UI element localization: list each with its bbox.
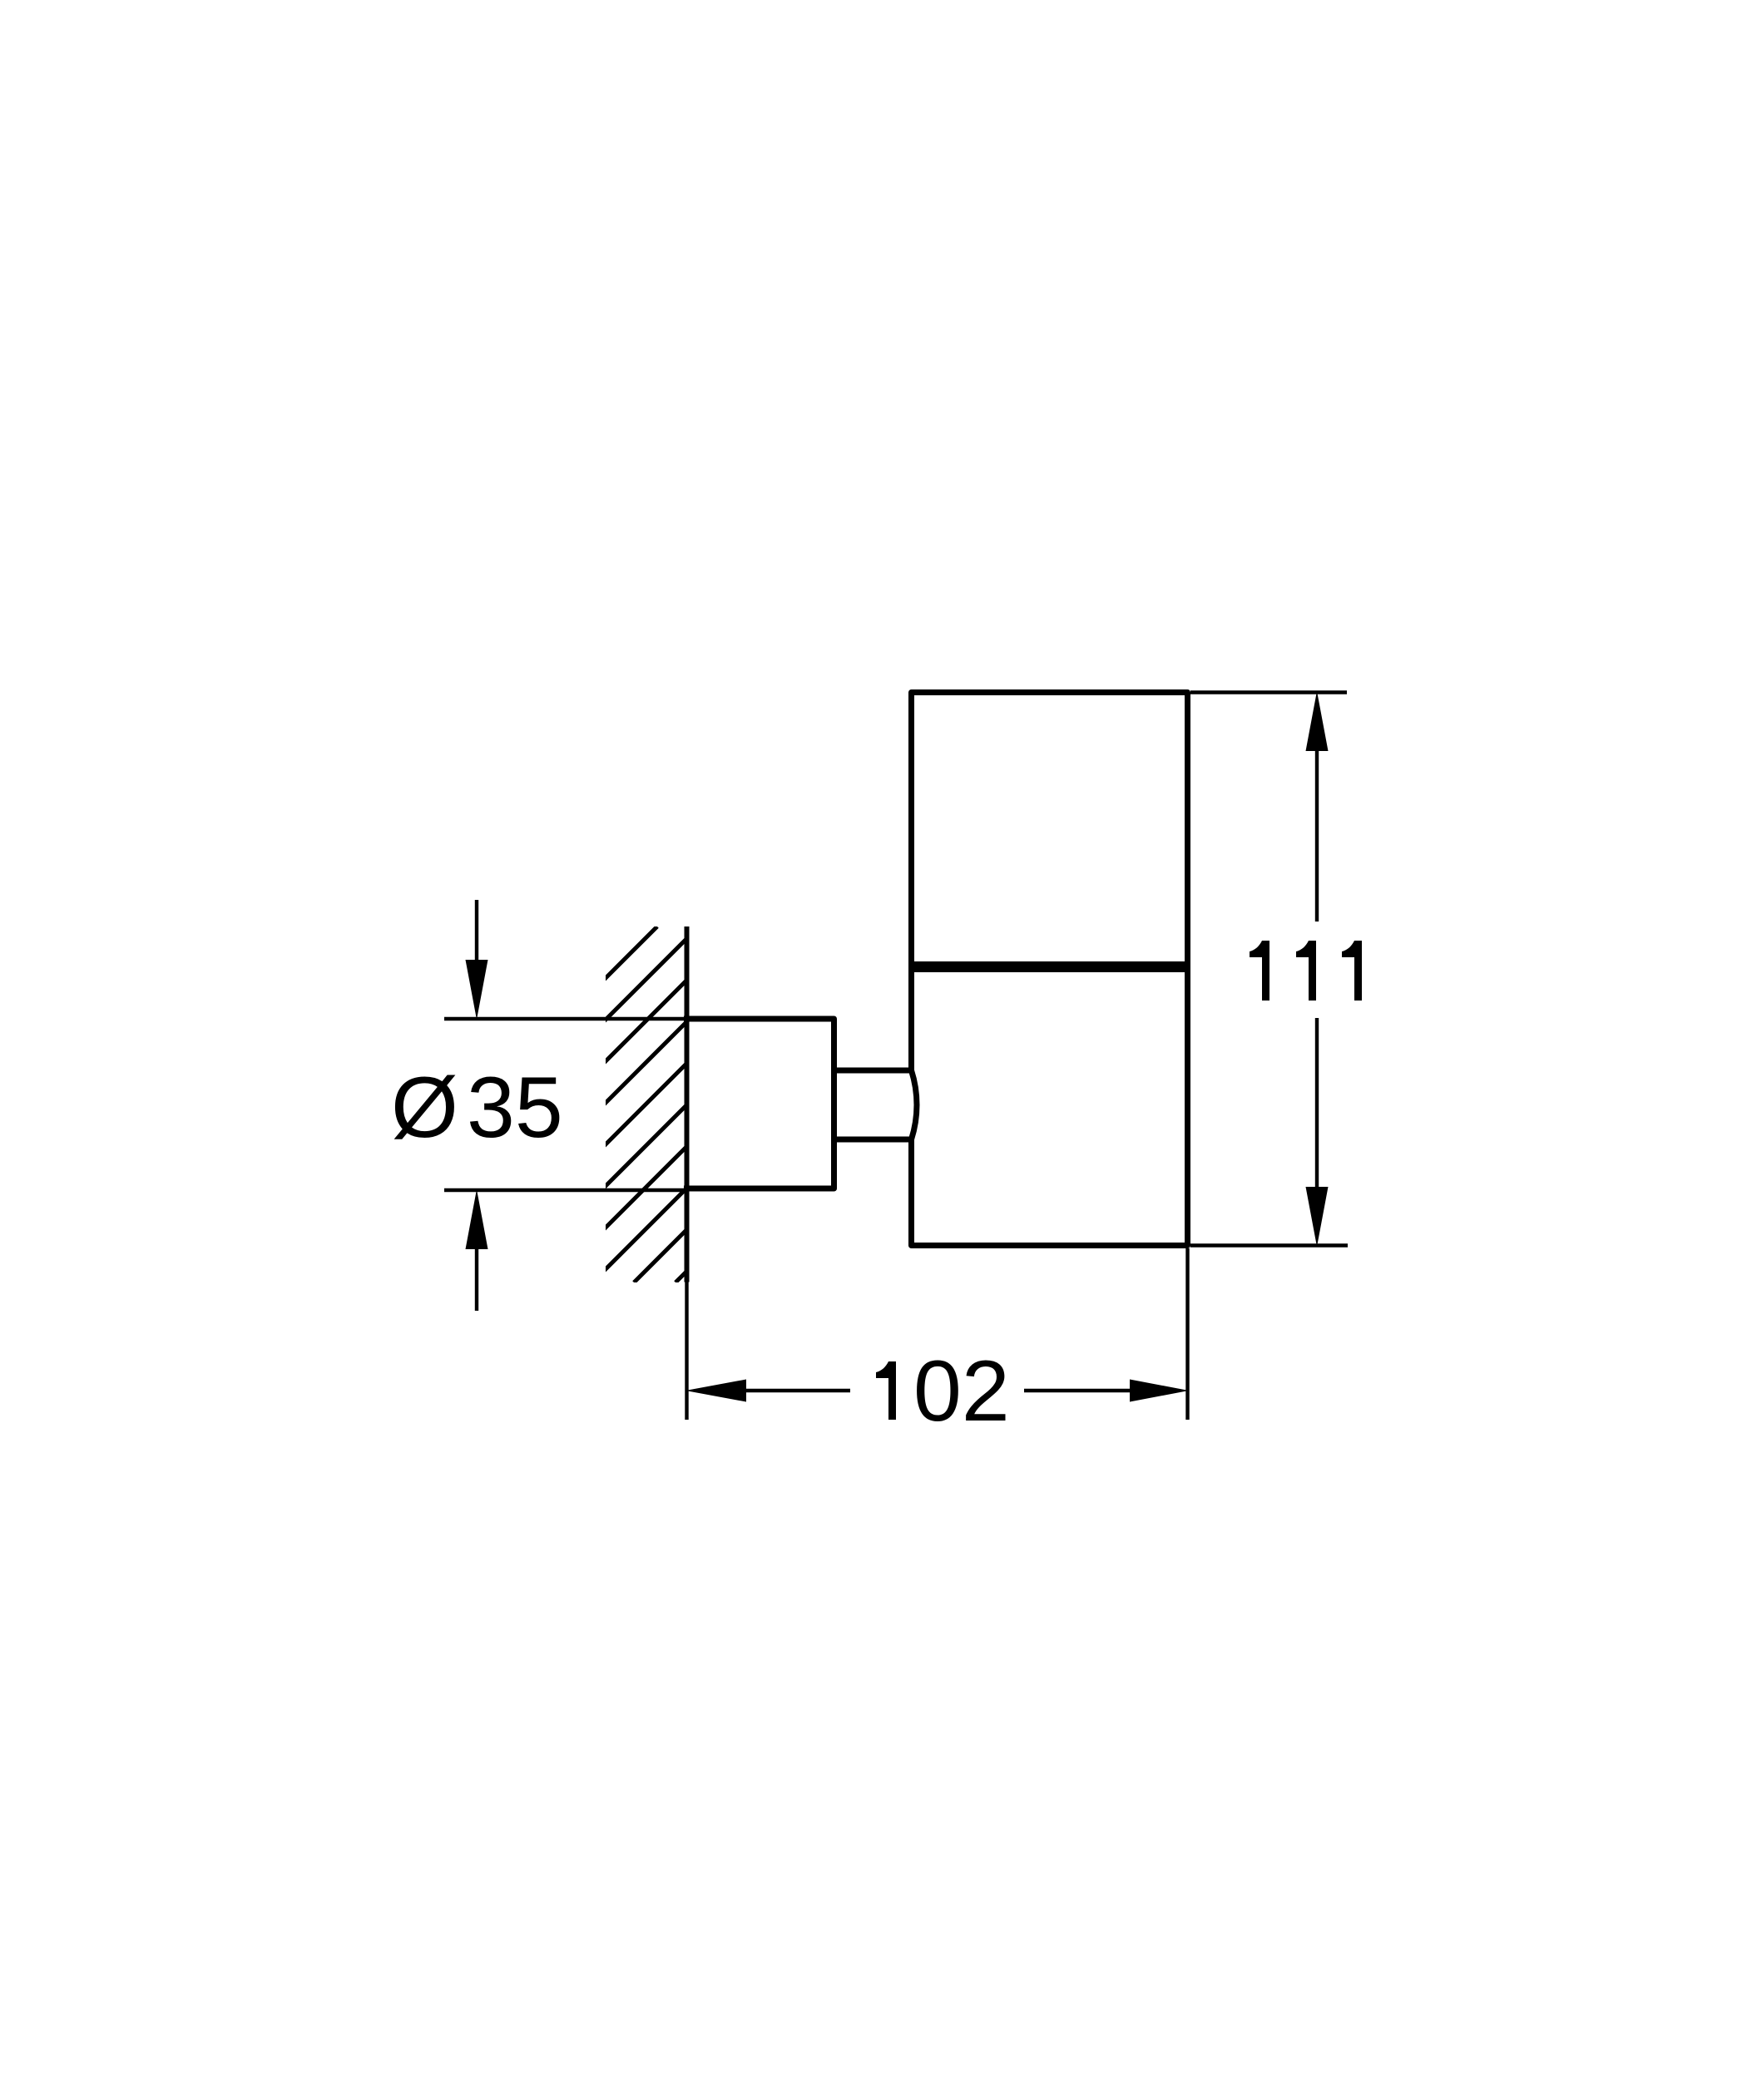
- dim 111 lower shaft: [1315, 1018, 1319, 1190]
- dim 102 right shaft: [1024, 1389, 1132, 1392]
- dim 111 label: [1250, 941, 1269, 1001]
- dim Ø35 upper arrowhead: [466, 960, 488, 1020]
- svg-text:02: 02: [913, 1343, 1010, 1440]
- svg-text:35: 35: [467, 1060, 563, 1156]
- dim 111 bottom extension line: [1190, 1243, 1348, 1247]
- svg-text:Ø: Ø: [391, 1060, 458, 1156]
- stem bottom line: [832, 1137, 913, 1143]
- wall hatching: [301, 926, 1032, 1282]
- dim 111 top extension line: [1190, 690, 1347, 694]
- cylinder joint arc at stem: [912, 1070, 917, 1139]
- dim 111 top arrowhead: [1306, 691, 1329, 751]
- cylinder middle joint line: [908, 961, 1190, 972]
- dim Ø35 lower arrowhead: [466, 1189, 488, 1249]
- holder cylinder body: [912, 693, 1188, 1246]
- dim Ø35 lower arrow shaft: [475, 1248, 478, 1311]
- dim Ø35 upper arrow shaft: [475, 900, 478, 965]
- dim 111 upper shaft: [1315, 749, 1319, 922]
- dim 102 right arrowhead: [1130, 1380, 1189, 1402]
- dim 102 left arrowhead: [685, 1380, 746, 1402]
- dim Ø35 lower extension line: [444, 1188, 684, 1192]
- dim 102 label: [876, 1361, 896, 1420]
- stem top line: [832, 1068, 913, 1074]
- wall line: [685, 926, 690, 1282]
- dim 102 left shaft: [744, 1389, 850, 1392]
- dim Ø35 upper extension line: [444, 1017, 684, 1020]
- mounting plate: [684, 1019, 834, 1188]
- dim 102 right extension line: [1185, 1248, 1189, 1420]
- dim 111 bottom arrowhead: [1306, 1187, 1329, 1247]
- dim 102 left extension line: [685, 1282, 688, 1421]
